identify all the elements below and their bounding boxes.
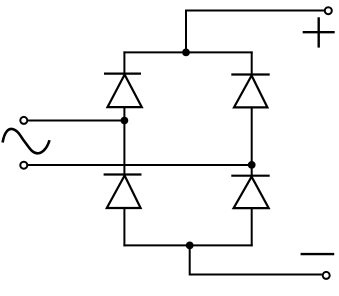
node J1 left AC junction — [121, 117, 129, 125]
diode D1 — [104, 74, 142, 108]
terminal DC+ — [325, 7, 332, 14]
wire AC input 1 — [28, 120, 125, 122]
diode D4 — [231, 176, 269, 208]
diode D2 — [231, 75, 269, 108]
terminal AC2 — [20, 162, 27, 169]
wire left column middle segment — [123, 106, 125, 175]
wire right column upper segment — [251, 51, 253, 75]
node J2 right AC junction — [248, 161, 256, 169]
node J3 top bus junction — [182, 49, 190, 57]
wire left column lower segment — [123, 207, 125, 246]
wire left column upper segment — [123, 51, 125, 74]
wire DC+ lead — [186, 11, 324, 54]
wire right column middle segment — [251, 106, 253, 175]
terminal AC1 — [20, 117, 27, 124]
wire bottom bus — [123, 244, 252, 246]
wire AC input 2 — [28, 164, 252, 166]
wire DC- lead — [190, 244, 322, 274]
AC source sine symbol — [3, 129, 50, 153]
minus symbol — [301, 253, 335, 255]
terminal DC- — [323, 272, 330, 279]
diode D3 — [104, 175, 142, 209]
plus symbol — [303, 17, 335, 47]
wire top bus — [123, 51, 252, 53]
node J4 bottom bus junction — [186, 242, 194, 250]
wire right column lower segment — [251, 207, 253, 246]
